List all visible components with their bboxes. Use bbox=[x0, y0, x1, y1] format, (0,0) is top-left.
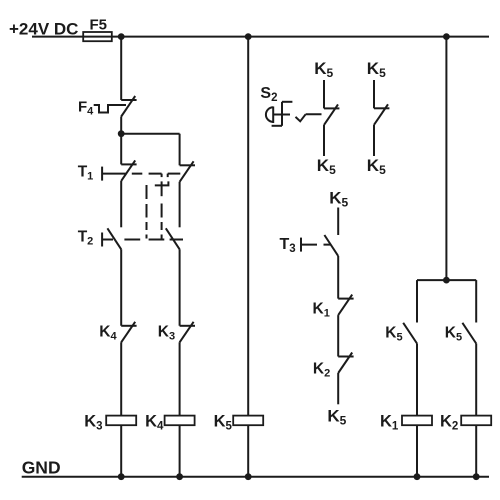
fuse F5 bbox=[83, 32, 112, 41]
T1 actuator link dashed bbox=[132, 173, 162, 175]
T3 actuator line bbox=[301, 244, 331, 246]
wire coil K5 to GND bbox=[247, 425, 249, 477]
wire contact K5 first to bottom terminal bbox=[323, 125, 325, 156]
junction on +24V rail at column 1 bbox=[118, 33, 125, 40]
coil K4 bbox=[165, 416, 195, 426]
wire contact K5 second to bottom terminal bbox=[373, 125, 375, 156]
contact K5 second (NC) bbox=[374, 104, 389, 125]
mechanical linkage dashed vertical right bbox=[161, 204, 163, 239]
contact T1 left (NC) bbox=[121, 160, 136, 181]
coil K3 bbox=[106, 416, 136, 426]
junction on +24V rail at column 3 bbox=[245, 33, 252, 40]
wire K1 to contact K2 bbox=[337, 315, 339, 356]
svg-text:K5: K5 bbox=[385, 325, 402, 344]
wire junction A down to contact T1 left bbox=[120, 134, 122, 165]
svg-text:K5: K5 bbox=[445, 325, 462, 344]
svg-text:T1: T1 bbox=[78, 163, 94, 182]
wire coil K2 to GND bbox=[475, 425, 477, 477]
junction GND at column 1 bbox=[118, 473, 125, 480]
wire K4 contact to coil K3 bbox=[120, 342, 122, 415]
T1 actuator link to right contact bbox=[168, 173, 181, 175]
contact K1 (NC) bbox=[338, 295, 353, 316]
contact T2 right (NO) bbox=[166, 228, 180, 249]
wire coil K3 to GND bbox=[120, 425, 122, 477]
wire coil K1 to GND bbox=[416, 425, 418, 477]
T2 actuator line solid bbox=[102, 239, 113, 241]
wire T2 left to contact K4 bbox=[120, 249, 122, 325]
contact F4 (NC) bbox=[121, 96, 136, 117]
F4 thermal actuator link bbox=[94, 105, 126, 113]
svg-text:K5: K5 bbox=[367, 156, 386, 177]
wire coil K4 to GND bbox=[179, 425, 181, 477]
wire junction A to column 2 bbox=[121, 133, 179, 135]
wire K5 terminal to contact K5 first bbox=[323, 80, 325, 108]
mechanical linkage dashed vertical left bbox=[146, 185, 148, 239]
wire contact K5 right to coil K2 bbox=[475, 344, 477, 416]
T1 linkage corner hook right bbox=[167, 174, 169, 178]
junction GND at column 2 bbox=[176, 473, 183, 480]
svg-text:F5: F5 bbox=[90, 17, 108, 34]
node A junction bbox=[118, 130, 125, 137]
svg-text:+24V DC: +24V DC bbox=[9, 20, 78, 39]
svg-text:K2: K2 bbox=[440, 412, 458, 432]
junction GND at coil K1 bbox=[414, 473, 421, 480]
node +24V DC supply rail bbox=[32, 36, 489, 38]
contact T3 (NO) bbox=[324, 235, 338, 256]
svg-text:K2: K2 bbox=[313, 361, 330, 380]
contact K3 (NC) bbox=[180, 322, 195, 343]
contact K5 right (NO) bbox=[462, 323, 476, 344]
wire K5 terminal to contact T3 bbox=[337, 208, 339, 236]
wire F4 to junction A bbox=[120, 117, 122, 134]
svg-text:K5: K5 bbox=[329, 189, 348, 210]
svg-text:T3: T3 bbox=[280, 236, 296, 255]
S2 actuator check link bbox=[296, 114, 322, 121]
coil K1 bbox=[402, 416, 432, 426]
wire column 3 rail to coil K5 bbox=[247, 37, 249, 416]
svg-text:K1: K1 bbox=[313, 301, 330, 320]
wire splitter to contact K5 left bbox=[416, 280, 418, 322]
wire K5 terminal to contact K5 second bbox=[373, 80, 375, 108]
wire T3 to contact K1 bbox=[337, 256, 339, 299]
svg-text:GND: GND bbox=[22, 458, 61, 478]
node GND rail bbox=[22, 476, 489, 478]
svg-text:K5: K5 bbox=[317, 156, 336, 177]
junction GND at coil K2 bbox=[473, 473, 480, 480]
wire right branch from rail bbox=[445, 37, 447, 281]
svg-text:S2: S2 bbox=[260, 85, 277, 104]
wire splitter to contact K5 right bbox=[475, 280, 477, 322]
svg-text:T2: T2 bbox=[78, 229, 94, 248]
svg-text:F4: F4 bbox=[78, 99, 94, 118]
coil K2 bbox=[461, 416, 491, 426]
S2 plunger bbox=[272, 102, 293, 126]
svg-text:K4: K4 bbox=[99, 324, 117, 343]
contact K5 first (NC) bbox=[324, 104, 339, 125]
pushbutton S2 mushroom head bbox=[266, 107, 273, 124]
node right branch split bbox=[443, 277, 450, 284]
T1 actuator tick bbox=[101, 167, 103, 181]
wire right branch splitter bbox=[417, 279, 476, 281]
svg-text:K5: K5 bbox=[214, 412, 233, 432]
wire T1 left to contact T2 left bbox=[120, 181, 122, 227]
T3 actuator tick bbox=[300, 238, 302, 252]
svg-text:K5: K5 bbox=[367, 59, 386, 80]
contact T2 left (NO) bbox=[107, 228, 121, 249]
T1 actuator line solid bbox=[102, 173, 126, 175]
svg-text:K3: K3 bbox=[84, 412, 102, 432]
wire T2 right to contact K3 bbox=[179, 249, 181, 325]
wire rail to contact F4 bbox=[120, 37, 122, 100]
contact T1 right (NC) bbox=[180, 161, 195, 182]
junction on +24V rail at right branch bbox=[443, 33, 450, 40]
timer linkage cross bar bbox=[155, 181, 169, 185]
wire column 2 down to contact T1 right bbox=[179, 134, 181, 166]
junction GND at column 3 bbox=[245, 473, 252, 480]
svg-text:K4: K4 bbox=[145, 412, 164, 432]
coil K5 bbox=[233, 416, 263, 426]
wire contact K5 left to coil K1 bbox=[416, 344, 418, 416]
wire K2 to bottom K5 terminal bbox=[337, 373, 339, 404]
timer linkage vertical solid bbox=[161, 181, 163, 196]
svg-text:K5: K5 bbox=[314, 59, 333, 80]
wire T1 right to contact T2 right bbox=[179, 182, 181, 228]
svg-text:K3: K3 bbox=[158, 324, 175, 343]
wire K3 contact to coil K4 bbox=[179, 342, 181, 415]
svg-text:K5: K5 bbox=[327, 406, 346, 427]
T2 actuator link dashed bbox=[124, 239, 183, 241]
svg-text:K1: K1 bbox=[380, 412, 399, 432]
contact K4 (NC) bbox=[121, 322, 136, 343]
contact K5 left (NO) bbox=[403, 323, 417, 344]
T1 linkage corner hook left bbox=[161, 174, 163, 178]
contact K2 (NC) bbox=[338, 353, 353, 374]
T2 actuator tick bbox=[101, 233, 103, 247]
